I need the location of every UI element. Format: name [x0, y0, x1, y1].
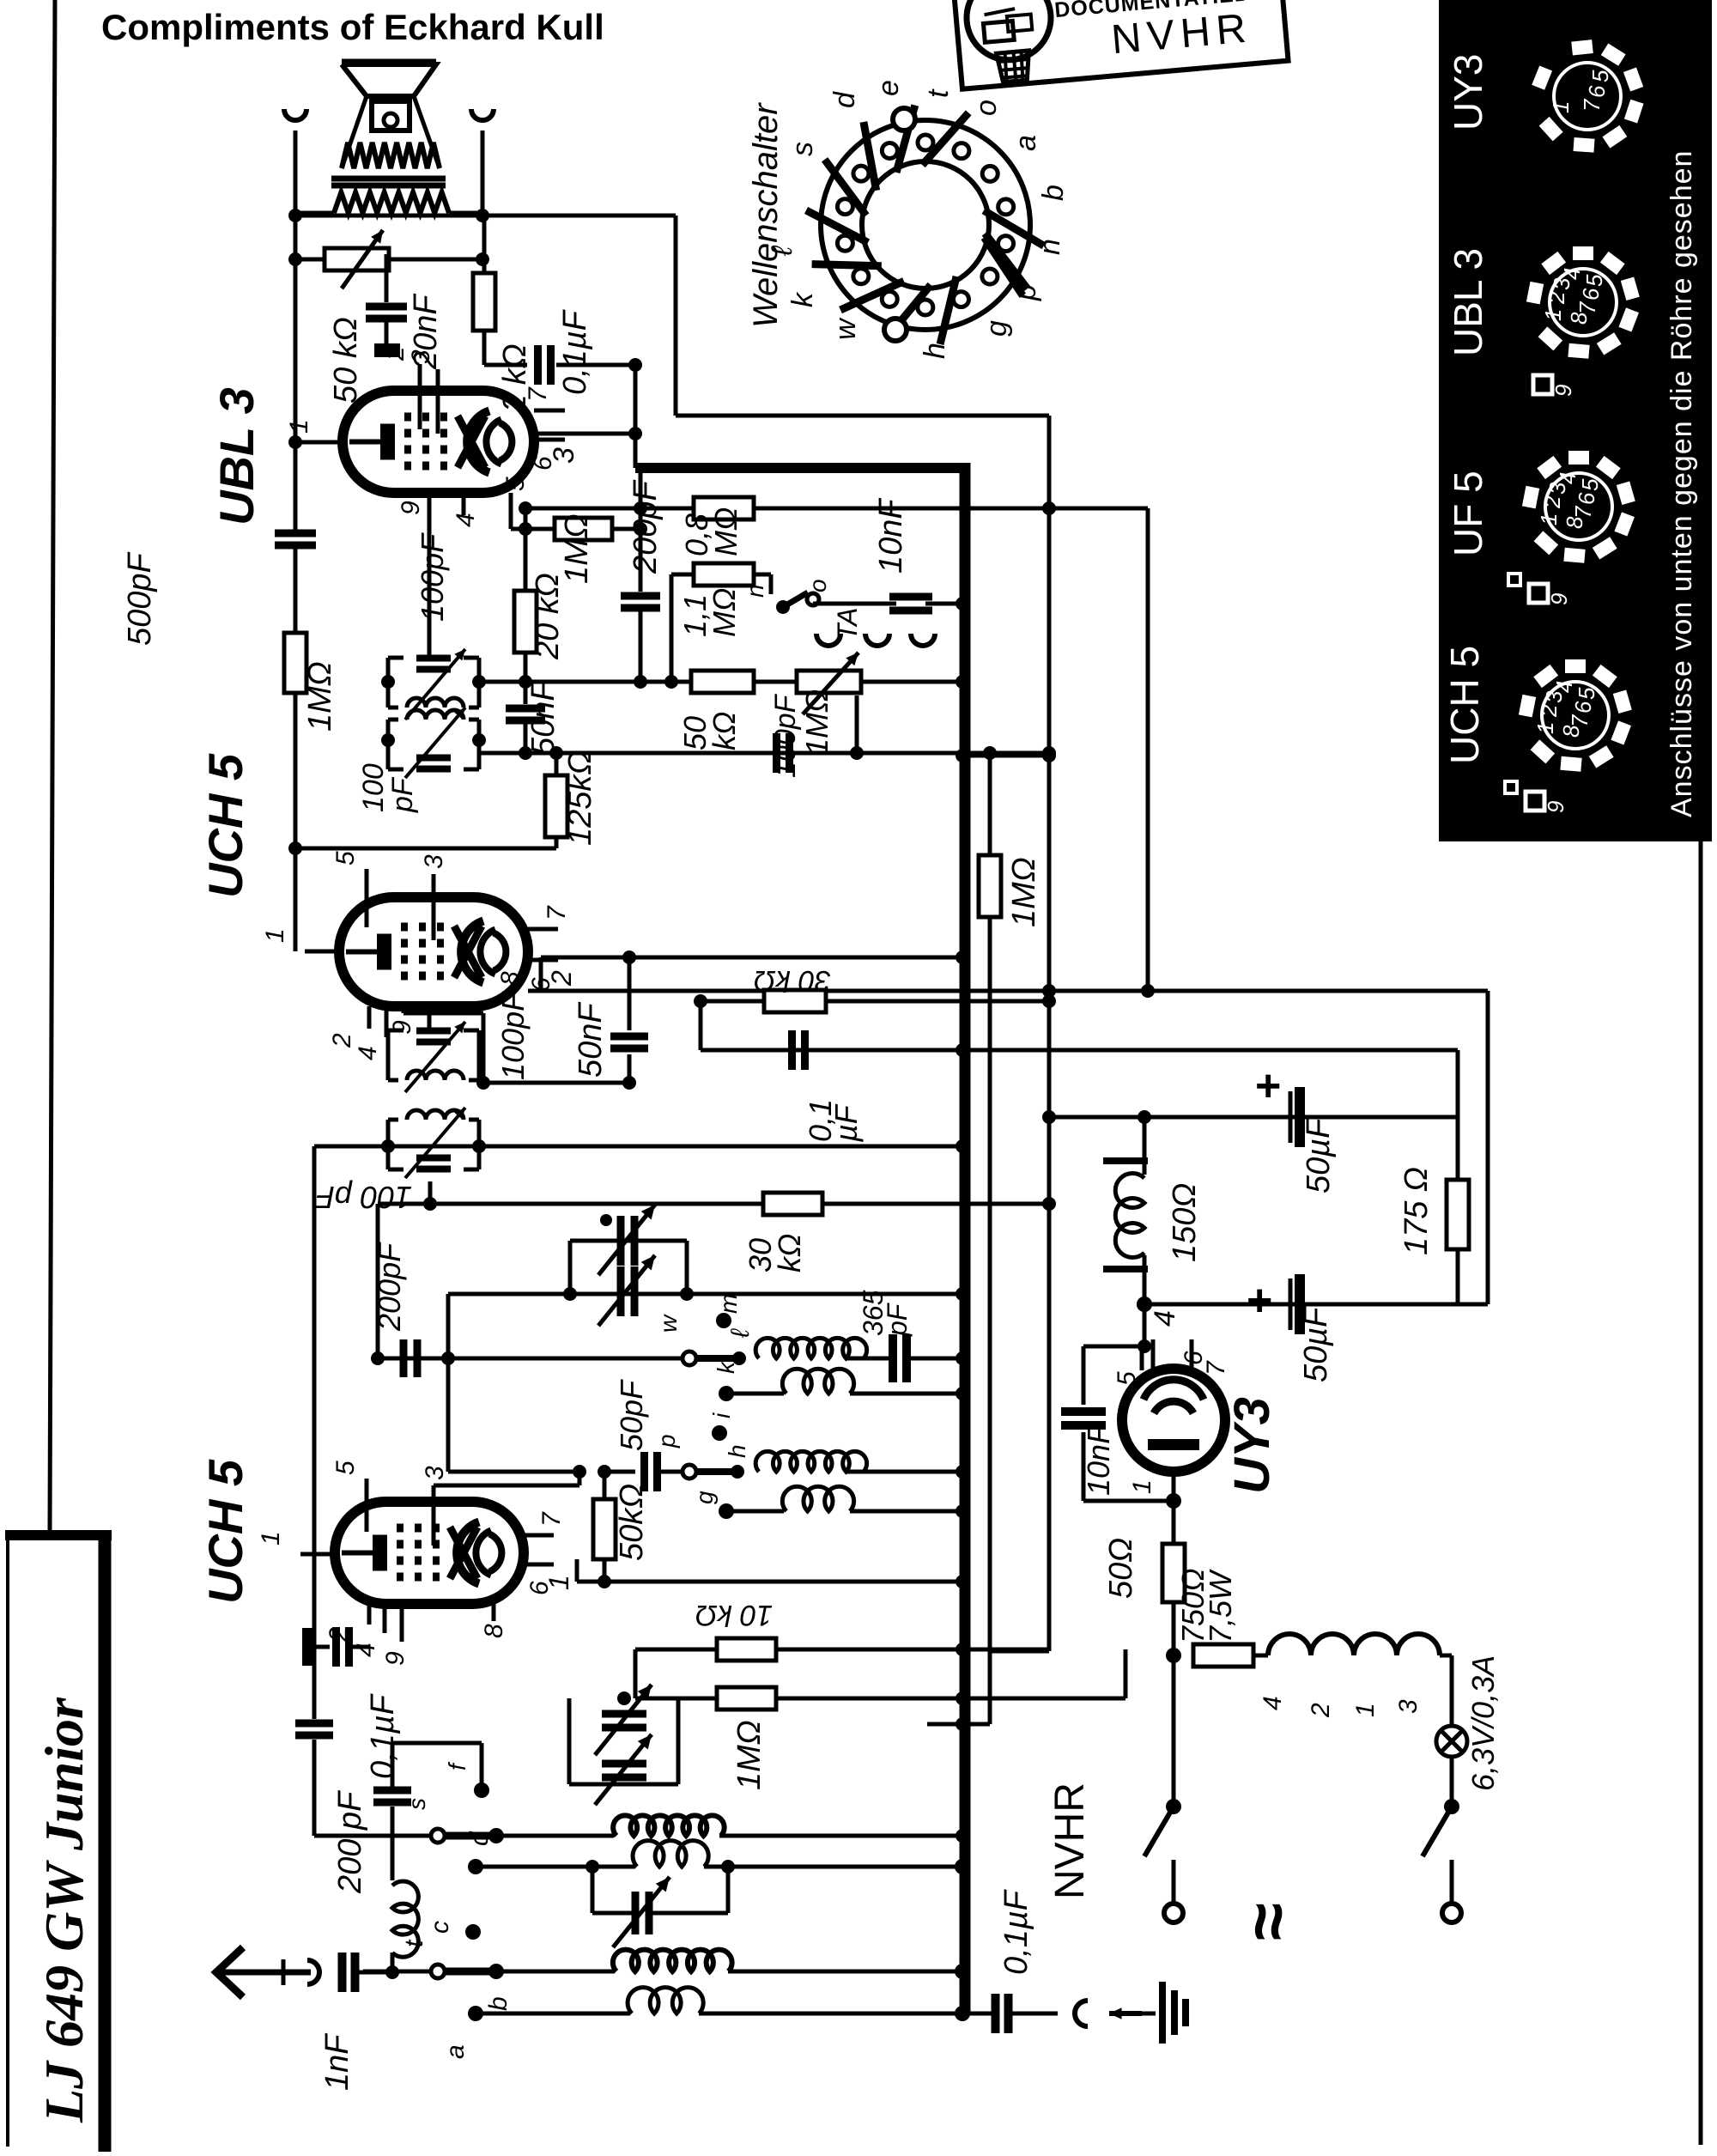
svg-text:1: 1: [1540, 309, 1566, 321]
svg-text:10 kΩ: 10 kΩ: [695, 1599, 773, 1631]
svg-text:6: 6: [1570, 701, 1596, 714]
svg-text:5: 5: [1577, 478, 1603, 491]
svg-text:s: s: [786, 142, 819, 156]
svg-text:5: 5: [501, 477, 530, 491]
svg-text:p: p: [653, 1434, 680, 1448]
svg-text:UBL 3: UBL 3: [1446, 248, 1490, 356]
svg-text:UY3: UY3: [1446, 54, 1490, 131]
svg-text:200 pF: 200 pF: [332, 1790, 368, 1894]
svg-text:6: 6: [1578, 288, 1604, 301]
svg-text:1: 1: [1536, 513, 1562, 525]
svg-text:8: 8: [1558, 725, 1584, 738]
svg-text:4: 4: [1259, 1696, 1287, 1710]
svg-text:k: k: [713, 1360, 739, 1374]
svg-text:5: 5: [331, 851, 360, 865]
svg-text:9: 9: [1550, 385, 1576, 397]
svg-text:+: +: [1247, 1276, 1272, 1326]
svg-text:Compliments of Eckhard Kull: Compliments of Eckhard Kull: [101, 7, 604, 47]
svg-text:1MΩ: 1MΩ: [302, 661, 338, 732]
svg-text:6,3V/0,3A: 6,3V/0,3A: [1465, 1655, 1501, 1791]
svg-text:6: 6: [1574, 492, 1599, 505]
svg-text:200pF: 200pF: [372, 1242, 407, 1332]
svg-text:3: 3: [1394, 1699, 1423, 1714]
svg-text:3: 3: [548, 447, 580, 464]
svg-text:1MΩ: 1MΩ: [731, 1720, 767, 1790]
svg-text:7: 7: [537, 1511, 566, 1527]
svg-text:1: 1: [1351, 1703, 1380, 1717]
svg-text:pF: pF: [882, 1302, 913, 1337]
svg-text:2: 2: [546, 970, 577, 987]
svg-text:6: 6: [1584, 85, 1610, 98]
svg-text:ℓ: ℓ: [726, 1328, 755, 1339]
svg-text:e: e: [872, 80, 905, 96]
svg-text:10nF: 10nF: [873, 498, 909, 574]
svg-text:50pF: 50pF: [614, 1379, 649, 1451]
svg-text:Wellenschalter: Wellenschalter: [747, 102, 785, 328]
svg-text:kΩ: kΩ: [772, 1234, 807, 1272]
svg-text:t: t: [922, 88, 955, 98]
svg-text:ℓ: ℓ: [766, 245, 798, 257]
svg-text:50µF: 50µF: [1301, 1117, 1337, 1193]
svg-text:150Ω: 150Ω: [1167, 1183, 1203, 1262]
svg-text:1nF: 1nF: [319, 2033, 355, 2091]
svg-text:7: 7: [1202, 1360, 1230, 1376]
svg-text:5: 5: [1113, 1371, 1141, 1386]
svg-text:4: 4: [1149, 1310, 1181, 1327]
svg-text:1MΩ: 1MΩ: [1006, 857, 1042, 927]
svg-text:2: 2: [1307, 1703, 1335, 1718]
svg-text:4: 4: [354, 1046, 382, 1060]
svg-text:500pF: 500pF: [122, 551, 158, 646]
svg-text:+: +: [1255, 1061, 1281, 1111]
svg-text:a: a: [1010, 135, 1042, 151]
svg-text:NVHR: NVHR: [1047, 1782, 1093, 1899]
svg-text:Anschlüsse von unten gegen die: Anschlüsse von unten gegen die Röhre ges…: [1665, 150, 1698, 817]
svg-text:h: h: [724, 1444, 750, 1458]
svg-text:MΩ: MΩ: [708, 507, 743, 556]
svg-text:50kΩ: 50kΩ: [614, 1484, 650, 1561]
svg-text:2: 2: [328, 1033, 356, 1048]
svg-text:100pF: 100pF: [415, 532, 450, 622]
svg-text:5: 5: [1587, 70, 1613, 82]
svg-text:≈: ≈: [1229, 1903, 1306, 1940]
svg-text:100pF: 100pF: [769, 693, 802, 778]
svg-text:5: 5: [1581, 274, 1607, 287]
svg-text:0,1µF: 0,1µF: [557, 309, 593, 395]
svg-text:µF: µF: [828, 1103, 864, 1143]
svg-text:100 pF: 100 pF: [314, 1180, 412, 1215]
svg-text:2: 2: [381, 346, 410, 361]
svg-text:LJ 649 GW Junior: LJ 649 GW Junior: [33, 1697, 94, 2123]
svg-text:g: g: [980, 320, 1013, 337]
svg-text:50µF: 50µF: [1298, 1306, 1334, 1382]
svg-text:9: 9: [1546, 593, 1572, 605]
svg-text:1: 1: [543, 1575, 574, 1590]
svg-text:125kΩ: 125kΩ: [562, 750, 598, 846]
svg-text:7: 7: [524, 386, 552, 402]
svg-text:5: 5: [331, 1461, 360, 1475]
svg-text:kΩ: kΩ: [707, 712, 742, 750]
svg-text:d: d: [465, 1831, 494, 1846]
svg-text:pF: pF: [386, 776, 419, 813]
svg-text:0,1µF: 0,1µF: [365, 1693, 401, 1779]
svg-text:175 Ω: 175 Ω: [1398, 1167, 1435, 1255]
svg-text:9: 9: [1543, 801, 1568, 813]
svg-text:UF 5: UF 5: [1446, 471, 1490, 556]
svg-text:UCH 5: UCH 5: [1442, 646, 1487, 764]
svg-text:0,1µF: 0,1µF: [998, 1889, 1034, 1975]
svg-text:h: h: [919, 343, 951, 359]
svg-text:TA: TA: [832, 607, 863, 641]
svg-text:d: d: [828, 91, 861, 108]
svg-text:50 kΩ: 50 kΩ: [328, 317, 364, 404]
svg-text:100pF: 100pF: [495, 991, 531, 1080]
svg-text:UBL 3: UBL 3: [209, 387, 264, 525]
svg-text:200pF: 200pF: [628, 479, 664, 574]
svg-text:10nF: 10nF: [1081, 1424, 1116, 1496]
svg-text:9: 9: [381, 1651, 410, 1666]
svg-text:8: 8: [496, 971, 525, 986]
svg-text:m: m: [715, 1294, 742, 1314]
svg-text:50Ω: 50Ω: [1103, 1538, 1139, 1599]
svg-text:5: 5: [1574, 687, 1599, 700]
svg-text:50nF: 50nF: [525, 680, 561, 756]
svg-text:3: 3: [421, 1466, 449, 1480]
svg-text:4: 4: [452, 513, 480, 527]
svg-text:o: o: [970, 100, 1003, 116]
svg-text:30 kΩ: 30 kΩ: [754, 964, 831, 997]
svg-text:1: 1: [257, 1531, 285, 1546]
svg-text:1: 1: [261, 928, 289, 943]
svg-text:o: o: [804, 579, 831, 592]
svg-text:20 kΩ: 20 kΩ: [530, 573, 566, 660]
svg-text:8: 8: [480, 1624, 508, 1638]
svg-text:2: 2: [1544, 291, 1569, 305]
svg-text:a: a: [441, 2044, 470, 2059]
svg-text:1: 1: [1548, 101, 1574, 113]
svg-text:3: 3: [407, 349, 435, 364]
svg-text:UCH 5: UCH 5: [198, 1459, 252, 1604]
svg-text:k: k: [786, 291, 819, 307]
svg-text:1: 1: [285, 419, 313, 434]
svg-text:UY3: UY3: [1224, 1397, 1280, 1494]
svg-text:7,5W: 7,5W: [1203, 1569, 1238, 1643]
svg-text:8: 8: [1562, 516, 1587, 529]
svg-text:2: 2: [1536, 704, 1562, 718]
svg-text:b: b: [1037, 185, 1070, 201]
svg-text:9: 9: [397, 501, 425, 515]
svg-text:b: b: [484, 1996, 513, 2011]
svg-text:7: 7: [543, 905, 571, 920]
svg-text:50nF: 50nF: [573, 1002, 609, 1078]
svg-text:1MΩ: 1MΩ: [799, 689, 834, 756]
svg-text:n: n: [742, 584, 768, 598]
svg-text:w: w: [829, 317, 862, 340]
svg-text:3: 3: [420, 854, 448, 869]
svg-text:c: c: [426, 1921, 454, 1934]
svg-text:8: 8: [1566, 312, 1592, 325]
svg-text:100: 100: [357, 763, 390, 812]
svg-text:2: 2: [1539, 495, 1565, 509]
svg-text:MΩ: MΩ: [707, 588, 742, 637]
svg-text:7: 7: [1579, 98, 1605, 112]
svg-text:1: 1: [1128, 1479, 1156, 1494]
svg-text:g: g: [691, 1491, 718, 1504]
svg-text:1: 1: [1532, 722, 1558, 734]
svg-text:w: w: [655, 1314, 682, 1333]
svg-text:i: i: [708, 1412, 735, 1418]
svg-text:UCH 5: UCH 5: [198, 753, 252, 898]
